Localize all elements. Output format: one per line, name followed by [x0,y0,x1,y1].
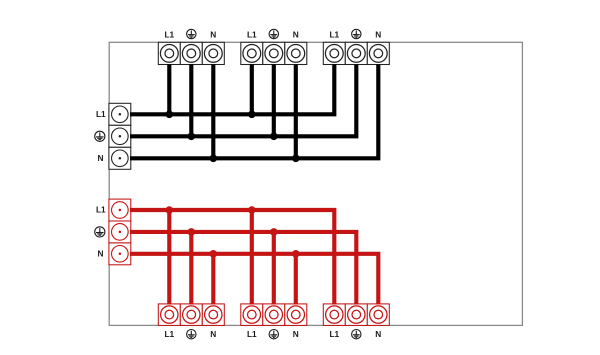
terminal block X6 (bottom, L1/PE/N, red) [323,304,389,326]
label PE earth symbol (left black block) [95,131,105,141]
label PE earth symbol (bottom block X5) [269,330,278,339]
terminal block X4 (bottom, L1/PE/N, red) [158,304,224,326]
junction dot black L1 / X2 [248,111,256,119]
svg-text:L1: L1 [329,329,339,339]
junction dot black L1 / X1 [166,111,174,119]
wire red L1 drop to bottom block X5 [250,210,254,304]
svg-text:L1: L1 [96,109,106,119]
terminal block X5 (bottom, L1/PE/N, red) [241,304,307,326]
junction dot red N / X5 [292,250,300,258]
label PE earth symbol (top block X1) [187,29,196,38]
wire red L1 bus (from left output L1 to bottom blocks) [130,210,334,304]
wire red PE bus (from left output PE to bottom blocks) [130,232,356,305]
svg-text:L1: L1 [96,205,106,215]
wire black N drop to top block X1 [211,64,215,158]
terminal block X3 (top, L1/PE/N) [323,42,389,64]
wire black PE drop to top block X1 [189,64,193,136]
svg-text:L1: L1 [247,30,257,40]
wire black L1 drop to top block X1 [167,64,171,114]
label PE earth symbol (top block X3) [352,29,361,38]
svg-text:L1: L1 [329,30,339,40]
label PE earth symbol (bottom block X6) [352,330,361,339]
wire black L1 drop to top block X2 [250,64,254,114]
junction dot black N / X2 [292,155,300,163]
svg-text:L1: L1 [164,30,174,40]
terminal block X2 (top, L1/PE/N) [241,42,307,64]
svg-text:N: N [210,329,216,339]
svg-text:N: N [293,329,299,339]
svg-text:N: N [375,30,381,40]
svg-text:N: N [210,30,216,40]
svg-text:N: N [375,329,381,339]
junction dot black N / X1 [210,155,218,163]
svg-text:N: N [98,248,104,258]
wire black L1 bus (from left input L1 to top blocks) [130,64,334,114]
svg-text:L1: L1 [247,329,257,339]
terminal block X0 (left input, L1/PE/N, black) [109,103,131,169]
junction dot red L1 / X4 [166,206,174,214]
wire red N drop to bottom block X4 [211,254,215,305]
terminal block X1 (top, L1/PE/N) [158,42,224,64]
svg-text:N: N [98,153,104,163]
enclosure box [109,42,522,325]
label PE earth symbol (bottom block X4) [187,330,196,339]
svg-text:L1: L1 [164,329,174,339]
wire red PE drop to bottom block X5 [272,232,276,305]
wire black N drop to top block X2 [294,64,298,158]
terminal block X0b (left output, L1/PE/N, red) [109,199,131,265]
junction dot red L1 / X5 [248,206,256,214]
junction dot red N / X4 [210,250,218,258]
wire red N bus (from left output N to bottom blocks) [130,254,378,305]
wire red PE drop to bottom block X4 [189,232,193,305]
svg-text:N: N [293,30,299,40]
junction dot red PE / X5 [270,228,278,236]
junction dot red PE / X4 [188,228,196,236]
wire red N drop to bottom block X5 [294,254,298,305]
wire black PE drop to top block X2 [272,64,276,136]
label PE earth symbol (top block X2) [269,29,278,38]
junction dot black PE / X2 [270,133,278,141]
wire black PE bus (from left input PE to top blocks) [130,64,356,136]
wire red L1 drop to bottom block X4 [167,210,171,304]
label PE earth symbol (left red block) [95,227,105,237]
wire black N bus (from left input N to top blocks) [130,64,378,158]
junction dot black PE / X1 [188,133,196,141]
